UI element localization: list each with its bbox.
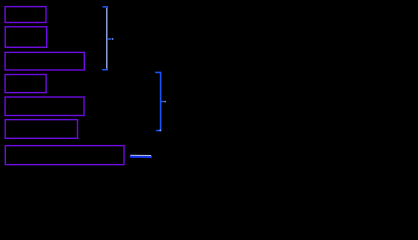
brace A light core	[106, 8, 108, 69]
brace B nub end dot	[164, 101, 166, 103]
bar 5	[5, 97, 84, 116]
bar 6	[5, 120, 77, 139]
bar 4	[5, 75, 46, 93]
brace B body	[155, 72, 160, 130]
brace B middle nub	[160, 101, 164, 103]
brace A middle nub	[107, 38, 111, 40]
brace A nub end dot	[112, 38, 114, 40]
brace A body	[102, 7, 107, 70]
bar 2	[5, 27, 47, 48]
underline mark	[130, 155, 152, 158]
underline mark highlight	[130, 154, 151, 156]
brace B corner dot	[159, 129, 161, 131]
bar 7	[5, 146, 124, 165]
bar 1	[5, 7, 46, 23]
bar 3	[5, 52, 84, 70]
